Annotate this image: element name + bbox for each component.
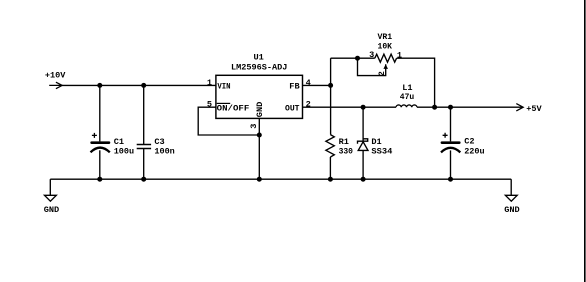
svg-text:2: 2 <box>306 100 311 110</box>
svg-text:+10V: +10V <box>45 71 66 81</box>
svg-text:D1: D1 <box>371 137 381 147</box>
junction rail/U1 GND <box>257 177 262 182</box>
svg-text:OUT: OUT <box>285 104 300 114</box>
power flag +5V <box>516 104 523 111</box>
wire input rail to VIN <box>62 84 216 86</box>
junction OUT/D1 <box>361 105 366 110</box>
potentiometer VR1 10K <box>358 54 397 75</box>
ground symbol right <box>505 179 517 201</box>
junction rail/C3 <box>141 177 146 182</box>
ground symbol left <box>45 179 57 201</box>
inductor L1 47u <box>396 105 417 107</box>
junction input/C1 <box>97 83 102 88</box>
svg-text:2: 2 <box>377 71 387 76</box>
svg-text:LM2596S-ADJ: LM2596S-ADJ <box>231 63 287 73</box>
svg-text:VIN: VIN <box>217 82 230 92</box>
junction VR1 wiper tap <box>355 56 360 61</box>
svg-text:GND: GND <box>504 205 519 215</box>
ground rail <box>50 178 511 180</box>
wire OUT pin to L1 <box>303 106 397 108</box>
junction OUT/C2 <box>448 105 453 110</box>
IC U1 body <box>216 75 303 118</box>
diode D1 SS34 <box>358 107 369 179</box>
svg-text:100n: 100n <box>154 147 174 157</box>
svg-text:VR1: VR1 <box>378 32 393 42</box>
svg-text:10K: 10K <box>378 42 393 52</box>
junction FB node <box>328 83 333 88</box>
svg-text:3: 3 <box>369 50 374 60</box>
svg-text:GND: GND <box>255 102 265 117</box>
junction input/C3 <box>141 83 146 88</box>
svg-text:3: 3 <box>249 124 259 129</box>
svg-text:C1: C1 <box>114 137 124 147</box>
resistor R1 330 <box>326 135 334 180</box>
svg-text:220u: 220u <box>464 147 484 157</box>
svg-text:5: 5 <box>207 100 212 110</box>
svg-text:ON/OFF: ON/OFF <box>217 104 250 114</box>
junction rail/C2 <box>448 177 453 182</box>
wire U1 GND pin down to ground rail <box>258 118 260 179</box>
svg-text:R1: R1 <box>339 137 349 147</box>
capacitor C1 100u <box>90 85 110 179</box>
junction rail/D1 <box>361 177 366 182</box>
wire feedback vertical VR1-to-R1 <box>330 58 332 134</box>
svg-text:4: 4 <box>306 78 311 88</box>
svg-text:C2: C2 <box>464 137 474 147</box>
svg-text:U1: U1 <box>254 53 264 63</box>
junction rail/C1 <box>97 177 102 182</box>
wire FB pin to feedback node <box>303 84 331 86</box>
svg-text:100u: 100u <box>114 147 134 157</box>
power flag +10V <box>49 82 62 89</box>
window border right edge <box>584 0 586 282</box>
junction ON/OFF loop at GND pin <box>257 133 262 138</box>
svg-text:FB: FB <box>289 82 299 92</box>
svg-text:GND: GND <box>44 205 59 215</box>
svg-text:1: 1 <box>397 51 402 61</box>
svg-text:+5V: +5V <box>526 104 542 114</box>
wire VR1 top left <box>331 57 375 59</box>
svg-text:1: 1 <box>207 78 212 88</box>
capacitor C2 220u <box>441 107 461 179</box>
wire L1 to +5V <box>417 106 523 108</box>
svg-text:C3: C3 <box>154 137 164 147</box>
junction rail/R1 <box>328 177 333 182</box>
U1 pin name ON/OFF <box>217 103 250 113</box>
wire ON/OFF loop to GND pin <box>198 107 259 135</box>
svg-text:47u: 47u <box>400 92 414 102</box>
svg-text:330: 330 <box>339 147 353 157</box>
wire VR1 right leg down to OUT <box>397 58 435 107</box>
junction VR1 leg / OUT rail <box>432 105 437 110</box>
capacitor C3 100n <box>137 85 151 179</box>
svg-text:SS34: SS34 <box>371 147 392 157</box>
